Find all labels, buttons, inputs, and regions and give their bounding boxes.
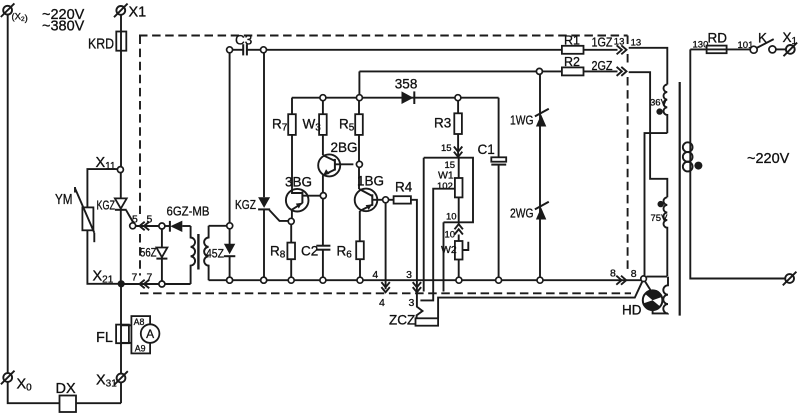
node KGZ cathode on bus (redraw) <box>261 277 267 283</box>
chevrons net 13 <box>617 45 622 54</box>
node C3 right <box>261 47 267 53</box>
wire net 3 zigzag into ZCZ <box>417 283 423 318</box>
node 3BG collector / C2 top <box>320 193 326 199</box>
node 45Z bottom on bus (redraw) <box>227 277 233 283</box>
svg-text:15: 15 <box>441 143 452 154</box>
wire ZCZ to lamp trigger <box>438 281 642 319</box>
resistor R1 <box>562 46 584 54</box>
thyristor KGZ (left, open) <box>115 198 136 228</box>
resistor R6 <box>356 241 364 277</box>
primary winding turns <box>683 142 693 152</box>
svg-text:RD: RD <box>708 31 728 46</box>
wire zener line <box>539 74 541 277</box>
svg-text:358: 358 <box>395 76 418 91</box>
svg-text:KGZ: KGZ <box>97 199 116 213</box>
wire C3 left leg <box>229 53 231 223</box>
zener 1WG <box>535 109 549 127</box>
winding 36V <box>664 85 668 134</box>
svg-text:R3: R3 <box>434 116 451 131</box>
svg-text:W2: W2 <box>441 244 457 256</box>
chevrons net 8 <box>616 276 621 285</box>
chevrons net 3 <box>413 282 421 287</box>
resistor R5 <box>355 101 363 162</box>
svg-text:8: 8 <box>610 268 616 280</box>
polarity dot 75V <box>658 201 664 207</box>
svg-text:HD: HD <box>622 303 642 318</box>
svg-text:36V: 36V <box>650 97 668 108</box>
capacitor C1 <box>491 98 506 278</box>
svg-text:W1: W1 <box>438 170 454 182</box>
wire secondary top to 45Z node <box>209 225 227 227</box>
capacitor C2 <box>316 199 330 278</box>
svg-text:~220V: ~220V <box>747 151 790 167</box>
diode 45Z <box>224 229 235 277</box>
node 5 junction <box>159 223 165 229</box>
wire rail branch up to R2 line <box>358 71 360 94</box>
terminal bottom right <box>783 272 797 286</box>
svg-text:5: 5 <box>132 214 138 226</box>
node HD junction <box>641 276 647 282</box>
chevrons net 2GZ <box>617 67 622 76</box>
wire X0 to bottom bus <box>8 382 60 403</box>
pulse transformer core <box>197 234 199 270</box>
terminal X31 <box>114 371 128 385</box>
terminal X0 <box>1 371 15 385</box>
svg-text:1GZ: 1GZ <box>592 35 613 49</box>
wire bottom bus net 8 <box>209 279 641 281</box>
ammeter A <box>141 324 160 343</box>
resistor R3 <box>454 101 462 158</box>
winding 75V <box>664 197 668 276</box>
wire X11 to KGZ <box>120 173 122 199</box>
wire lamp bottom loop <box>653 310 668 313</box>
wire net 13 to 36V winding <box>629 48 668 85</box>
node R8 on bus <box>288 277 294 283</box>
node W3 top <box>320 95 326 101</box>
wire KRD to X11 <box>120 51 122 167</box>
wire W1 tap 102 <box>420 189 455 301</box>
wire net 4 down <box>385 203 387 289</box>
svg-text:R4: R4 <box>395 179 413 194</box>
node C1 on bus <box>496 277 502 283</box>
fuse FL <box>116 325 129 344</box>
fuse RD <box>707 46 751 54</box>
svg-text:10: 10 <box>446 211 457 222</box>
svg-text:(X2): (X2) <box>12 12 28 25</box>
terminal X1 right <box>784 43 798 57</box>
wire net 2GZ to junction <box>629 72 668 197</box>
resistor R7 <box>288 98 296 189</box>
chevrons crossing 5 <box>140 222 145 230</box>
svg-text:1BG: 1BG <box>357 174 384 189</box>
node 7 junction <box>159 281 165 287</box>
node R3 top <box>455 95 461 101</box>
wire R5 line to 1BG <box>358 167 360 189</box>
junction X21 <box>118 280 125 287</box>
wire X1 to KRD <box>120 15 122 32</box>
wire W1 bottom leg down <box>443 222 445 291</box>
transistor 1BG <box>355 189 383 242</box>
trigger ZCZ box <box>416 318 439 325</box>
chevrons crossing 7 <box>140 280 145 288</box>
node zener line on bus <box>537 277 543 283</box>
wire 36V bottom junction <box>645 133 668 277</box>
svg-text:4: 4 <box>372 269 378 281</box>
node C2 on bus <box>320 277 326 283</box>
pot block W1 outline <box>424 158 473 223</box>
transformer core <box>679 82 681 316</box>
wire 75V bottom to node <box>646 276 667 278</box>
polarity dot primary <box>694 162 702 170</box>
svg-text:4: 4 <box>379 297 385 309</box>
svg-text:A: A <box>146 327 154 341</box>
wire primary top to RD <box>690 48 706 50</box>
wire bottom bus DX to X31 <box>60 402 122 404</box>
svg-text:DX: DX <box>56 381 76 397</box>
chevrons net 15 into W1 <box>454 147 462 152</box>
wire X21 down to FL <box>120 284 122 325</box>
svg-text:1WG: 1WG <box>510 113 534 128</box>
lamp HD <box>643 281 663 310</box>
node X11 <box>117 167 123 173</box>
varistor YM <box>75 187 94 242</box>
svg-text:10: 10 <box>445 230 456 241</box>
wire X2 down to X0 <box>7 14 9 373</box>
diode 56Z <box>156 229 167 281</box>
svg-text:A9: A9 <box>135 343 146 353</box>
pulse transformer secondary winding <box>204 226 208 280</box>
svg-text:2BG: 2BG <box>331 140 358 155</box>
wire KGZ cathode to bus <box>263 209 265 277</box>
terminal X1 top-left <box>114 4 128 18</box>
switch K <box>750 39 786 53</box>
node 1BG base / R4 left <box>383 197 389 203</box>
wire primary line <box>690 49 785 278</box>
potentiometer W2 <box>455 235 468 278</box>
node KGZ cathode on bus <box>261 277 267 283</box>
node 45Z bottom on bus <box>227 277 233 283</box>
wire KGZ to X21 <box>120 210 122 284</box>
potentiometer W3 <box>319 101 327 155</box>
diode 358 <box>402 91 415 104</box>
varistor YM branch wire <box>87 169 117 207</box>
wire 7 to winding <box>165 283 191 285</box>
svg-text:FL: FL <box>96 330 113 346</box>
svg-text:2WG: 2WG <box>510 206 534 221</box>
capacitor C3 <box>233 44 261 55</box>
wire W1 left leg down <box>423 158 425 292</box>
pulse transformer primary winding <box>191 226 195 284</box>
svg-text:13: 13 <box>614 36 625 47</box>
wire to 6GZ diode <box>165 225 170 227</box>
thyristor KGZ (main) <box>258 197 288 221</box>
fuse KRD <box>116 32 126 51</box>
svg-text:3: 3 <box>408 297 414 309</box>
chevrons net 4 <box>381 282 389 287</box>
svg-text:X1: X1 <box>129 5 147 21</box>
wire KGZ anode from C3 node <box>263 53 265 198</box>
svg-text:45Z: 45Z <box>206 247 224 261</box>
svg-text:75V: 75V <box>651 213 669 224</box>
svg-text:5: 5 <box>147 214 153 226</box>
svg-text:8: 8 <box>631 268 637 280</box>
node 2BG base on R5 line <box>356 161 362 167</box>
node C3 left <box>227 47 233 53</box>
wire net 7 <box>125 283 159 285</box>
wire supply rail <box>292 97 499 99</box>
node 45Z top <box>227 223 233 229</box>
svg-text:C2: C2 <box>301 244 318 259</box>
svg-text:102: 102 <box>437 181 453 192</box>
svg-text:7: 7 <box>132 272 138 284</box>
node W2 on bus <box>456 277 462 283</box>
svg-text:A8: A8 <box>134 317 145 327</box>
svg-text:56Z: 56Z <box>140 246 157 260</box>
polarity dot 36V <box>656 108 662 114</box>
transistor 3BG <box>286 189 320 218</box>
svg-text:YM: YM <box>55 192 73 208</box>
resistor R8 <box>287 224 295 277</box>
dashed enclosure top border <box>139 35 628 37</box>
node R6 on bus <box>357 277 363 283</box>
svg-text:13: 13 <box>631 37 642 48</box>
node R5 top <box>356 95 362 101</box>
svg-text:K: K <box>758 31 767 46</box>
diode 6GZ-MB primary <box>170 221 191 232</box>
svg-text:C3: C3 <box>235 32 252 47</box>
svg-text:R2: R2 <box>564 55 580 69</box>
winding igniter <box>663 277 668 314</box>
chevrons net 10 <box>455 224 463 229</box>
svg-text:2GZ: 2GZ <box>592 59 613 73</box>
wire gate net 5 <box>136 225 159 227</box>
dashed enclosure bottom border <box>140 292 631 294</box>
svg-text:R1: R1 <box>564 34 580 48</box>
node zener line top <box>536 68 542 74</box>
svg-text:3: 3 <box>406 269 412 281</box>
wire circle to R2 <box>542 70 562 72</box>
dashed enclosure right border <box>627 36 629 45</box>
svg-text:6GZ-MB: 6GZ-MB <box>167 204 210 219</box>
zener 2WG <box>535 202 549 220</box>
svg-text:7: 7 <box>147 272 153 284</box>
node 3BG emitter / R8 top <box>288 218 294 224</box>
ammeter block stubs <box>121 324 131 326</box>
wire R2 feed line <box>359 70 536 72</box>
resistor W1 element <box>455 158 463 224</box>
svg-text:~380V: ~380V <box>42 19 85 35</box>
svg-text:KRD: KRD <box>88 37 114 53</box>
wire YM to X21 <box>87 230 120 283</box>
resistor R2 <box>562 67 584 75</box>
dashed enclosure left border <box>139 36 141 215</box>
svg-text:C1: C1 <box>478 142 495 157</box>
svg-text:ZCZ: ZCZ <box>389 313 415 328</box>
ammeter block A8/A9 <box>131 316 150 353</box>
transistor 2BG <box>318 154 353 192</box>
resistor R4 <box>389 196 417 283</box>
breaker DX <box>60 396 77 413</box>
wire X31 riser <box>120 382 122 403</box>
wire top bus to R1 <box>267 49 562 51</box>
wire FL to X31 <box>120 343 122 373</box>
svg-text:3BG: 3BG <box>285 174 312 189</box>
svg-text:KGZ: KGZ <box>235 197 256 212</box>
terminal X2 <box>1 3 15 17</box>
